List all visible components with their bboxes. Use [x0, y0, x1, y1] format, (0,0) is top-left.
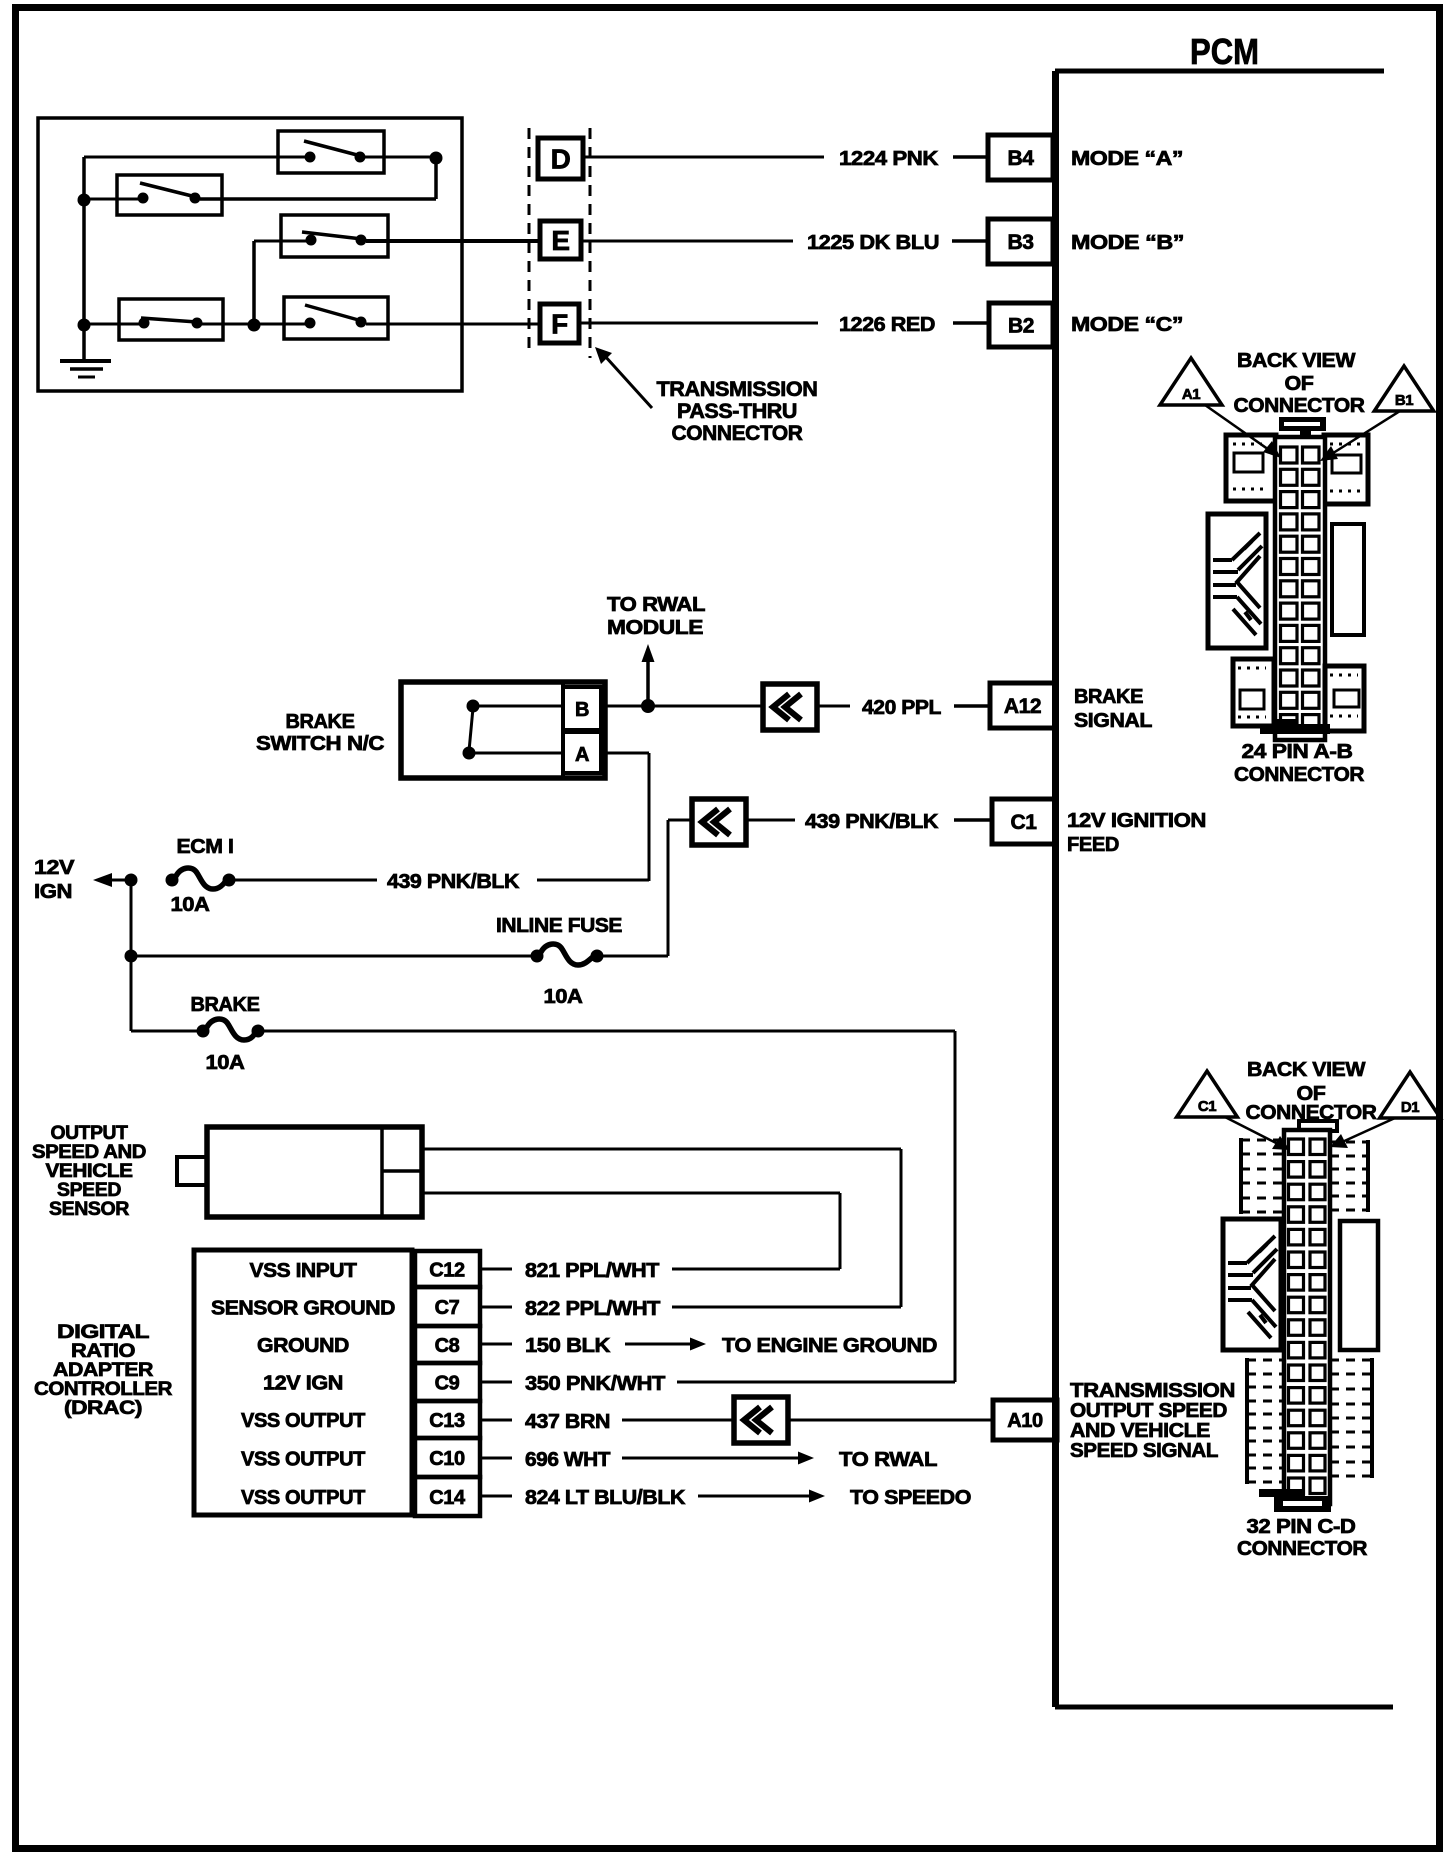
wire: A out corner — [601, 752, 649, 755]
wire: C13 stub — [480, 1419, 512, 1422]
svg-text:RATIO: RATIO — [71, 1341, 135, 1362]
24 pin connector: right lower cavity — [1325, 666, 1364, 731]
terminal A (brake switch) — [563, 732, 601, 773]
svg-text:C9: C9 — [435, 1373, 460, 1395]
wire: left bus vertical — [82, 157, 86, 326]
svg-text:B4: B4 — [1007, 147, 1034, 170]
24 pin connector: pin strip — [1275, 437, 1325, 740]
callout triangle B1 — [1374, 366, 1433, 411]
speed sensor tab — [177, 1157, 207, 1185]
pressure switch S3 (row E) — [281, 215, 388, 257]
svg-text:BACK VIEW: BACK VIEW — [1237, 350, 1356, 372]
24 pin connector: left latch block — [1208, 514, 1266, 648]
callout triangle C1 — [1177, 1071, 1238, 1117]
terminal C9 — [415, 1363, 480, 1401]
svg-text:MODULE: MODULE — [607, 617, 703, 639]
wire: sensor top to 822 — [422, 1148, 901, 1151]
svg-text:BACK VIEW: BACK VIEW — [1247, 1059, 1366, 1081]
svg-text:A12: A12 — [1004, 695, 1041, 718]
svg-text:C1: C1 — [1198, 1098, 1216, 1115]
svg-text:INLINE FUSE: INLINE FUSE — [496, 915, 622, 937]
svg-text:437 BRN: 437 BRN — [525, 1411, 610, 1433]
svg-text:1225 DK BLU: 1225 DK BLU — [807, 232, 939, 254]
svg-text:824 LT BLU/BLK: 824 LT BLU/BLK — [525, 1487, 686, 1509]
terminal E — [540, 221, 581, 259]
svg-text:C8: C8 — [435, 1335, 460, 1357]
wire: 821 to sensor — [672, 1268, 840, 1271]
DRAC box — [194, 1250, 412, 1515]
fuse BRAKE 10A — [197, 1025, 210, 1038]
svg-text:E: E — [551, 225, 569, 256]
svg-text:(DRAC): (DRAC) — [64, 1398, 142, 1419]
svg-text:B: B — [575, 699, 589, 721]
pressure switch S1 (top, row D) — [278, 131, 384, 173]
wire: 350 to brake fuse feed — [677, 1381, 955, 1384]
wire: 1226 RED — [579, 322, 818, 325]
wire: 420 PPL — [815, 705, 850, 708]
32 pin connector: left latch block — [1223, 1219, 1281, 1350]
svg-text:B3: B3 — [1007, 231, 1033, 254]
svg-text:IGN: IGN — [34, 881, 72, 903]
svg-text:SWITCH N/C: SWITCH N/C — [256, 733, 384, 755]
svg-text:CONNECTOR: CONNECTOR — [1237, 1538, 1368, 1560]
wire: B out with junction — [601, 705, 763, 708]
wire: C12 stub — [480, 1268, 512, 1271]
svg-text:12V: 12V — [34, 857, 75, 879]
terminal B2 — [989, 303, 1053, 347]
24 pin connector: top tab — [1279, 417, 1326, 439]
svg-text:24 PIN A-B: 24 PIN A-B — [1242, 741, 1353, 763]
svg-text:A1: A1 — [1182, 386, 1200, 403]
svg-text:MODE “A”: MODE “A” — [1071, 148, 1183, 170]
label arrow to pass-thru connector — [604, 355, 652, 408]
switch assembly box — [38, 118, 462, 391]
svg-text:PASS-THRU: PASS-THRU — [677, 400, 797, 423]
wire: row D inside assembly — [84, 156, 306, 159]
wire: 439 PNK/BLK left run — [233, 879, 377, 882]
svg-text:SPEED SIGNAL: SPEED SIGNAL — [1070, 1440, 1218, 1462]
32 pin connector: lower right comb — [1330, 1359, 1372, 1362]
brake switch box — [401, 682, 605, 778]
wire: contacts to terminals — [478, 705, 563, 708]
wire: C10 stub — [480, 1457, 512, 1460]
wire: arrow to RWAL — [622, 1457, 802, 1460]
svg-text:VSS OUTPUT: VSS OUTPUT — [241, 1410, 365, 1432]
terminal C7 — [415, 1287, 480, 1326]
svg-text:GROUND: GROUND — [257, 1335, 349, 1357]
svg-text:BRAKE: BRAKE — [1074, 686, 1143, 708]
callout triangle A1 — [1160, 358, 1222, 405]
svg-text:VSS INPUT: VSS INPUT — [250, 1260, 357, 1282]
svg-text:OUTPUT SPEED: OUTPUT SPEED — [1070, 1400, 1227, 1422]
svg-text:32 PIN C-D: 32 PIN C-D — [1247, 1516, 1356, 1538]
svg-text:C13: C13 — [429, 1410, 465, 1432]
32 pin connector: pin strip — [1284, 1130, 1330, 1504]
wire: dashed connector line left — [528, 128, 531, 356]
svg-text:BRAKE: BRAKE — [191, 994, 260, 1016]
24 pin connector: left upper cavity — [1226, 435, 1276, 501]
svg-text:CONNECTOR: CONNECTOR — [672, 422, 803, 445]
wire: C8 stub — [480, 1343, 512, 1346]
wire: row F to connector F — [366, 323, 540, 326]
24 pin connector: right lower cavity block — [1332, 524, 1364, 635]
wire: brake feed down to 350 PNK/WHT — [954, 1031, 957, 1382]
svg-text:C14: C14 — [429, 1487, 466, 1509]
svg-text:A10: A10 — [1007, 1410, 1043, 1432]
brake switch contacts — [467, 700, 480, 713]
terminal C10 — [415, 1438, 480, 1477]
24 pin connector: right upper cavity — [1324, 435, 1368, 504]
in-line connector symbol (439 PNK/BLK) — [692, 799, 746, 845]
svg-text:10A: 10A — [206, 1052, 245, 1074]
pressure switch S2 (row 2) — [117, 175, 222, 215]
svg-text:TRANSMISSION: TRANSMISSION — [657, 378, 818, 401]
svg-text:TO SPEEDO: TO SPEEDO — [850, 1487, 971, 1509]
wire: row F left — [84, 323, 140, 326]
wire: arrow to speedo — [698, 1495, 813, 1498]
wire: 439 PNK/BLK to C1 — [744, 819, 795, 822]
speed sensor terminal divider — [380, 1127, 384, 1217]
wire: arrow to RWAL module — [646, 658, 650, 706]
32 pin connector: right block — [1340, 1221, 1378, 1350]
svg-text:10A: 10A — [171, 894, 210, 916]
svg-text:C7: C7 — [435, 1297, 460, 1319]
svg-text:A: A — [575, 744, 589, 766]
svg-text:C10: C10 — [429, 1448, 465, 1470]
svg-text:696 WHT: 696 WHT — [525, 1449, 610, 1471]
svg-text:SPEED AND: SPEED AND — [32, 1142, 146, 1163]
leader line A1 — [1205, 405, 1272, 452]
wire: row E riser — [252, 241, 256, 325]
wire: 12V bus vertical — [130, 880, 133, 1031]
svg-text:MODE “C”: MODE “C” — [1071, 314, 1183, 336]
24 pin connector: left lower cavity — [1233, 659, 1274, 726]
svg-text:B1: B1 — [1395, 392, 1413, 409]
svg-text:10A: 10A — [544, 986, 583, 1008]
terminal C14 — [415, 1477, 480, 1516]
node: RWAL junction — [641, 699, 655, 713]
svg-text:D1: D1 — [1401, 1099, 1419, 1116]
svg-text:MODE “B”: MODE “B” — [1071, 232, 1184, 254]
svg-text:SENSOR GROUND: SENSOR GROUND — [211, 1298, 395, 1320]
svg-text:SENSOR: SENSOR — [49, 1199, 130, 1220]
svg-text:C1: C1 — [1010, 811, 1037, 834]
32 pin connector: upper right comb — [1330, 1141, 1368, 1144]
wire: C14 stub — [480, 1495, 512, 1498]
leader line B1 — [1330, 411, 1400, 455]
svg-text:12V IGNITION: 12V IGNITION — [1067, 810, 1206, 832]
wire: arrow to engine ground — [625, 1343, 694, 1346]
32 pin connector: top tab — [1299, 1121, 1337, 1131]
terminal C8 — [415, 1326, 480, 1363]
svg-text:VSS OUTPUT: VSS OUTPUT — [241, 1449, 365, 1471]
svg-text:822 PPL/WHT: 822 PPL/WHT — [525, 1298, 660, 1320]
wire: brake fuse row — [131, 1030, 197, 1033]
svg-text:12V IGN: 12V IGN — [263, 1373, 343, 1395]
terminal B (brake switch) — [563, 687, 601, 730]
32 pin connector: lower left comb — [1247, 1359, 1284, 1362]
terminal C13 — [415, 1401, 480, 1438]
svg-text:CONNECTOR: CONNECTOR — [1234, 395, 1366, 417]
node: left bus junction 1 — [78, 194, 91, 207]
wire: 437 to A10 — [788, 1419, 993, 1422]
terminal C1 — [992, 799, 1055, 844]
svg-text:ADAPTER: ADAPTER — [53, 1360, 154, 1381]
svg-text:821 PPL/WHT: 821 PPL/WHT — [525, 1260, 659, 1282]
terminal A12 — [990, 683, 1055, 728]
terminal F — [540, 304, 579, 343]
wire: dashed connector line right — [589, 128, 592, 358]
wire: C9 stub — [480, 1381, 512, 1384]
svg-text:TRANSMISSION: TRANSMISSION — [1070, 1380, 1235, 1402]
svg-text:AND VEHICLE: AND VEHICLE — [1070, 1420, 1210, 1442]
svg-text:DIGITAL: DIGITAL — [57, 1322, 150, 1343]
terminal A10 — [993, 1400, 1057, 1440]
svg-text:VSS OUTPUT: VSS OUTPUT — [241, 1487, 365, 1509]
callout triangle D1 — [1380, 1072, 1441, 1118]
svg-text:VEHICLE: VEHICLE — [46, 1161, 133, 1182]
ground — [82, 325, 86, 360]
wire: row E to connector E — [366, 239, 540, 243]
node: row F junction — [248, 319, 261, 332]
32 pin connector: bottom foot — [1259, 1489, 1305, 1497]
svg-text:BRAKE: BRAKE — [286, 711, 355, 733]
svg-text:1226 RED: 1226 RED — [839, 314, 935, 336]
wire: 437 to chevron — [622, 1419, 734, 1422]
wire: 822 to sensor — [672, 1306, 901, 1309]
wire: 12V IGN feed arrow — [93, 873, 112, 887]
node: left bus junction 2 — [78, 319, 91, 332]
svg-text:C12: C12 — [429, 1260, 465, 1282]
svg-text:439 PNK/BLK: 439 PNK/BLK — [805, 811, 939, 833]
pressure switch S4 (row F left) — [119, 299, 223, 340]
wire: C7 stub — [480, 1306, 512, 1309]
wire: sensor bottom to 821 — [422, 1192, 840, 1195]
svg-text:B2: B2 — [1008, 315, 1034, 338]
wire: chevron stub to corner — [668, 819, 692, 822]
svg-text:D: D — [551, 144, 571, 175]
wire: inline fuse row — [131, 955, 531, 958]
svg-text:150 BLK: 150 BLK — [525, 1335, 611, 1357]
node: 12V bus junction 1 — [125, 874, 138, 887]
svg-text:350 PNK/WHT: 350 PNK/WHT — [525, 1373, 665, 1395]
svg-text:TO RWAL: TO RWAL — [839, 1449, 937, 1471]
terminal C12 — [415, 1251, 480, 1287]
24 pin connector: bottom tab — [1260, 724, 1330, 734]
svg-text:SPEED: SPEED — [57, 1180, 121, 1201]
svg-text:TO ENGINE GROUND: TO ENGINE GROUND — [722, 1335, 937, 1357]
svg-text:F: F — [551, 309, 568, 340]
terminal D — [538, 138, 583, 179]
svg-text:420 PPL: 420 PPL — [862, 697, 941, 719]
svg-text:TO RWAL: TO RWAL — [607, 594, 705, 616]
svg-text:CONNECTOR: CONNECTOR — [1234, 764, 1365, 786]
svg-text:CONTROLLER: CONTROLLER — [34, 1379, 173, 1400]
svg-text:PCM: PCM — [1190, 31, 1259, 72]
PCM box — [1055, 69, 1384, 74]
fuse INLINE 10A — [531, 950, 544, 963]
pressure switch S5 (row F right) — [284, 297, 388, 339]
node: D junction — [430, 152, 443, 165]
svg-text:OUTPUT: OUTPUT — [51, 1123, 129, 1144]
terminal B3 — [988, 219, 1053, 264]
svg-text:OF: OF — [1285, 373, 1314, 395]
32 pin connector: upper left comb — [1241, 1139, 1284, 1142]
svg-text:FEED: FEED — [1067, 834, 1119, 856]
terminal B4 — [988, 135, 1053, 180]
wire: 1224 PNK — [583, 156, 824, 159]
svg-text:1224 PNK: 1224 PNK — [839, 148, 939, 170]
svg-text:ECM I: ECM I — [177, 836, 234, 858]
wire: row 2 — [84, 198, 139, 201]
fuse ECM I 10A — [166, 874, 179, 887]
leader line D1 — [1340, 1118, 1395, 1143]
speed sensor body — [207, 1127, 422, 1217]
node: 12V bus junction 2 — [125, 950, 138, 963]
svg-text:439 PNK/BLK: 439 PNK/BLK — [387, 871, 520, 893]
in-line connector symbol (437 BRN) — [734, 1397, 788, 1443]
wire: 1225 DK BLU — [581, 240, 793, 243]
leader line C1 — [1225, 1117, 1280, 1145]
in-line connector symbol (420 PPL) — [763, 684, 817, 730]
svg-text:SIGNAL: SIGNAL — [1074, 710, 1152, 732]
